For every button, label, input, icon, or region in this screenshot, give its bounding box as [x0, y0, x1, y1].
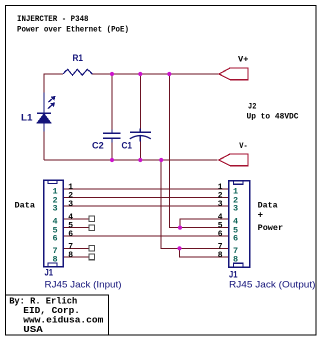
capacitor C2	[92, 74, 121, 160]
pin numbers outside J1 output	[218, 183, 223, 260]
svg-text:8: 8	[52, 255, 57, 265]
junction top rail C1	[138, 72, 142, 76]
pin numbers inside J1 output	[233, 187, 238, 265]
svg-text:Power: Power	[258, 224, 284, 233]
title block text	[9, 297, 104, 335]
RJ45 jack J1 output body	[229, 181, 250, 268]
svg-text:3: 3	[218, 200, 223, 209]
svg-text:V+: V+	[238, 56, 249, 65]
wire pin8 stub	[63, 256, 89, 258]
title block	[6, 295, 109, 335]
wire pin1	[63, 188, 229, 190]
wire pin4 branch	[180, 219, 229, 228]
svg-text:8: 8	[218, 251, 223, 260]
junction top rail C2	[110, 72, 114, 76]
svg-text:3: 3	[233, 204, 238, 214]
svg-text:8: 8	[68, 251, 73, 260]
svg-text:4: 4	[218, 213, 223, 222]
svg-text:4: 4	[68, 213, 73, 222]
svg-text:J1: J1	[45, 268, 54, 279]
no-connect square pin4	[89, 216, 95, 222]
svg-text:R1: R1	[73, 53, 84, 64]
wire pin2	[63, 197, 229, 199]
svg-text:8: 8	[233, 255, 238, 265]
svg-text:RJ45 Jack (Input): RJ45 Jack (Input)	[45, 280, 122, 291]
svg-text:6: 6	[218, 230, 223, 239]
resistor R1	[63, 53, 92, 75]
svg-text:3: 3	[68, 200, 73, 209]
svg-text:INJERCTER - P348: INJERCTER - P348	[17, 15, 89, 24]
junction top rail V+ feed	[167, 72, 171, 76]
junction pin7 row	[177, 246, 181, 250]
svg-text:+: +	[258, 210, 263, 220]
svg-text:J2: J2	[248, 103, 257, 112]
svg-text:3: 3	[52, 204, 57, 214]
wire pin4 stub	[63, 218, 89, 220]
svg-text:Data: Data	[15, 202, 36, 211]
svg-text:6: 6	[233, 234, 238, 244]
no-connect square pin7	[89, 246, 95, 252]
pin numbers outside J1 input	[68, 183, 73, 260]
wire V- feed vertical	[161, 160, 228, 248]
wire V+ feed vertical	[169, 74, 228, 228]
wire pin6	[63, 235, 229, 237]
svg-text:6: 6	[52, 234, 57, 244]
svg-text:6: 6	[68, 230, 73, 239]
connector flag V+	[219, 56, 249, 80]
svg-text:USA: USA	[23, 325, 43, 335]
junction bottom rail V- feed	[159, 158, 163, 162]
no-connect square pin5	[89, 225, 95, 231]
junction pin5 row	[178, 226, 182, 230]
svg-text:RJ45 Jack (Output): RJ45 Jack (Output)	[229, 280, 316, 291]
connector flag V-	[219, 142, 248, 166]
svg-text:C1: C1	[122, 141, 133, 152]
LED L1	[21, 93, 56, 132]
no-connect square pin8	[89, 254, 95, 260]
svg-text:Power over Ethernet (PoE): Power over Ethernet (PoE)	[17, 26, 129, 35]
junction bottom rail C1	[138, 158, 142, 162]
svg-text:V-: V-	[239, 142, 247, 151]
svg-text:C2: C2	[92, 141, 104, 152]
wire pin7 stub	[63, 247, 89, 249]
wire bottom rail V-	[44, 159, 218, 161]
title text	[17, 15, 129, 35]
svg-text:L1: L1	[21, 113, 33, 124]
wire pin5 stub	[63, 227, 89, 229]
wire top rail V+	[44, 74, 219, 160]
junction bottom rail C2	[110, 158, 114, 162]
wire pin8 branch	[180, 248, 229, 257]
wire pin3	[63, 205, 229, 207]
label Data + Power	[258, 202, 284, 233]
pin numbers inside J1 input	[52, 187, 57, 265]
RJ45 jack J1 input body	[44, 180, 64, 267]
svg-text:Up to 48VDC: Up to 48VDC	[247, 113, 299, 122]
capacitor C1 (polarized)	[122, 74, 152, 160]
